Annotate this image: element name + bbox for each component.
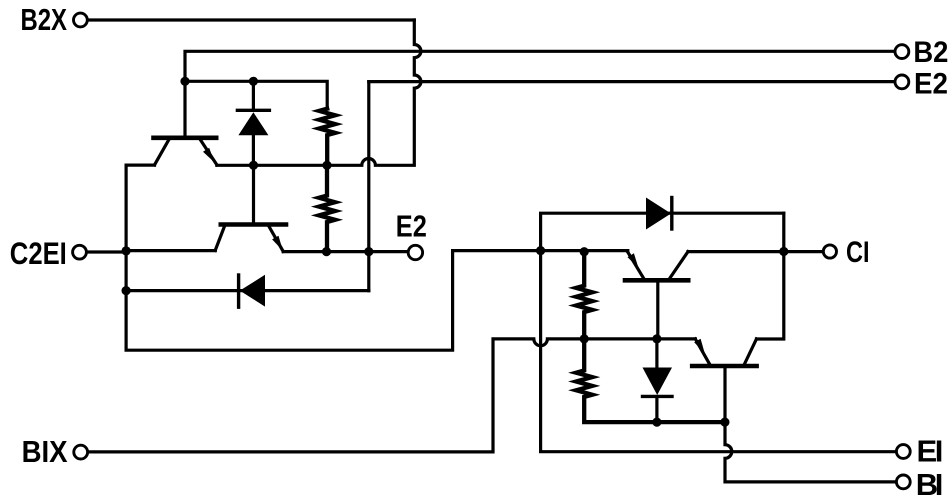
transistor Q2 base bar xyxy=(154,136,217,141)
terminal circle E2 top xyxy=(895,75,909,89)
transistor Q2 collector diagonal xyxy=(155,140,169,165)
wire C1 rail from Q3 collector to terminal C1 xyxy=(688,250,823,253)
wire E2 top line from corner to terminal E2 xyxy=(369,80,895,83)
junction dot C2E1 node xyxy=(122,246,131,255)
wire Q4 base lead down with hop over E1 line, corner to terminal B1 xyxy=(725,368,896,482)
wire diode D3 top line, left vertical x=540 and E1 line to terminal E1 xyxy=(541,213,897,452)
junction dot D1 top on base rail xyxy=(249,77,258,86)
diode D2 line across collector-emitter xyxy=(126,289,369,292)
svg-text:I: I xyxy=(935,434,944,469)
terminal circle C2E1 xyxy=(73,245,87,259)
junction dot R2 bottom on emitter rail xyxy=(322,247,331,256)
wire B1X line from terminal, up right side vertical, and B-rail with hop under x=540 vertical xyxy=(88,339,695,452)
diode D4 triangle xyxy=(643,368,673,396)
transistor Q3 base bar xyxy=(625,278,688,283)
resistor R4 with corner right along base rail y=422 xyxy=(576,339,725,422)
svg-text:B2X: B2X xyxy=(21,2,68,37)
diode D2 cathode bar xyxy=(237,275,240,307)
terminal circle B2X xyxy=(74,13,88,27)
svg-text:C2EI: C2EI xyxy=(10,235,67,271)
transistor Q4 emitter diagonal xyxy=(695,339,709,364)
diode D3 cathode bar xyxy=(670,198,673,230)
svg-text:CI: CI xyxy=(846,236,870,269)
wire E2 vertical from corner at y=81 down to diode D2 line xyxy=(367,82,370,291)
terminal circle B2 xyxy=(895,45,909,59)
transistor Q2 emitter diagonal xyxy=(201,140,217,165)
junction dot D2 line at left vertical xyxy=(122,286,131,295)
wire Q1 base lead xyxy=(252,165,255,222)
junction dot Q3 base / D4 on B1X rail xyxy=(652,334,661,343)
diode D3 triangle xyxy=(646,198,671,230)
transistor Q1 emitter diagonal xyxy=(269,227,283,251)
junction dot E2 vertical on emitter rail xyxy=(364,247,373,256)
wire Q3 base lead down to rail xyxy=(656,282,659,339)
transistor Q3 emitter diagonal xyxy=(628,252,644,278)
wire B2 line from transistor Q2 base up and right to terminal B2 xyxy=(185,51,895,135)
resistor R3 xyxy=(576,252,592,339)
wire B2X horizontal from terminal B2X to corner xyxy=(88,18,415,21)
transistor Q4 base bar xyxy=(692,364,756,369)
wire C2E1 terminal line xyxy=(87,250,127,253)
wire B2X vertical with hops over B2 and E2 lines, then left along y=165 rail with hop over E2 vertical xyxy=(217,20,421,165)
junction dot R3/R4 on B1X rail xyxy=(580,334,589,343)
diode D4 leads xyxy=(655,339,658,422)
diode D1 anode/cathode leads xyxy=(252,81,255,165)
terminal circle C1 xyxy=(823,245,836,258)
terminal circle E1 xyxy=(896,445,910,459)
junction dot D4 bottom on base rail xyxy=(652,418,661,427)
junction dot R1/R2 on y=165 rail xyxy=(322,161,331,170)
junction dot Q2 base / B2 rail xyxy=(180,77,189,86)
diode D1 cathode bar xyxy=(237,109,269,112)
svg-text:B2: B2 xyxy=(913,36,948,69)
wire emitter rail right segment from Q1 emitter to terminal E2 mid xyxy=(283,250,408,253)
transistor Q3 collector diagonal xyxy=(670,252,688,278)
wire base rail y=81 with corner down into resistor R1 xyxy=(184,81,327,108)
resistor R1 xyxy=(319,109,335,166)
diode D4 cathode bar xyxy=(643,395,673,398)
transistor Q4 collector diagonal xyxy=(745,339,757,364)
transistor Q2 emitter arrow xyxy=(203,148,214,163)
transistor Q1 base bar xyxy=(221,222,286,227)
svg-text:E2: E2 xyxy=(396,208,427,243)
terminal circle B1X xyxy=(74,445,88,459)
terminal circle E2 mid xyxy=(408,245,422,259)
transistor Q4 emitter arrow xyxy=(694,339,705,354)
junction dot C1 rail at Q4 collector vertical xyxy=(779,247,788,256)
svg-text:BIX: BIX xyxy=(22,434,68,469)
wire D3 right corner vertical down through C1 rail to Q4 collector xyxy=(757,213,784,339)
svg-text:E2: E2 xyxy=(914,68,948,101)
junction dot x=540 vertical on C2E1 rail xyxy=(536,246,545,255)
transistor Q1 collector diagonal xyxy=(215,227,224,250)
junction dot R3 top xyxy=(580,247,589,256)
transistor Q1 emitter arrow xyxy=(272,236,283,251)
terminal circle B1 xyxy=(896,475,910,489)
wire collector rail left segment to Q1 collector xyxy=(126,249,215,252)
svg-text:I: I xyxy=(935,467,944,502)
diode D2 triangle xyxy=(240,275,265,307)
resistor R2 xyxy=(319,165,335,251)
junction dot D1 bottom on y=165 rail xyxy=(249,161,258,170)
wire Q2 collector jog, left vertical, bottom jog and right vertical up to C-rail of right block xyxy=(126,165,628,350)
transistor Q3 emitter arrow xyxy=(628,253,639,268)
junction dot base rail at Q4 base vertical xyxy=(720,418,729,427)
diode D1 triangle xyxy=(238,112,268,135)
